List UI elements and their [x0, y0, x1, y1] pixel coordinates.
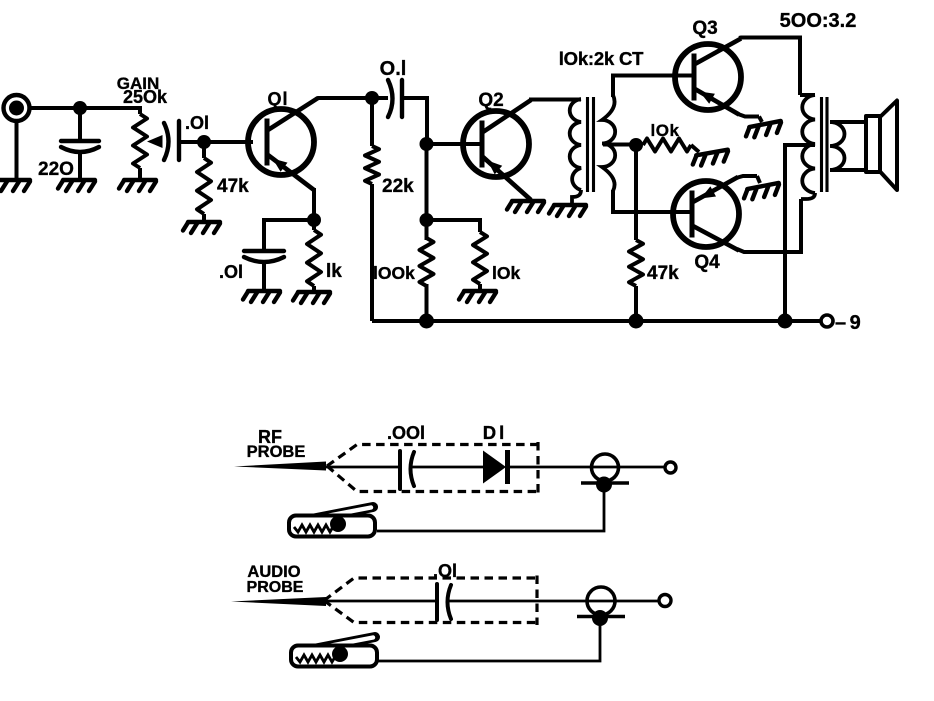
wire RF ground return	[377, 488, 604, 531]
alligator clip (audio)	[291, 637, 377, 667]
svg-text:5OO:3.2: 5OO:3.2	[780, 10, 857, 32]
svg-text:PROBE: PROBE	[247, 579, 304, 596]
svg-text:47k: 47k	[217, 176, 249, 197]
svg-text:lOOk: lOOk	[373, 263, 415, 283]
speaker LS1	[866, 101, 897, 191]
wire RF probe line	[326, 466, 398, 469]
svg-text:lOk: lOk	[492, 263, 520, 283]
resistor 100k	[420, 238, 434, 286]
terminal (RF)	[665, 462, 676, 473]
node input junction	[73, 101, 87, 115]
svg-text:22O: 22O	[38, 159, 74, 180]
resistor 22k	[365, 98, 379, 321]
audio probe body (dashed)	[324, 576, 537, 626]
transistor Q4	[673, 177, 739, 251]
capacitor .01 (audio)	[437, 584, 451, 620]
wire cap to plug (audio)	[447, 600, 659, 603]
svg-text:.Ol: .Ol	[219, 262, 243, 282]
wire T1 secondary bottom to Q4 base	[613, 190, 692, 212]
svg-text:Q3: Q3	[692, 18, 717, 39]
wire Q4 emitter	[736, 176, 760, 183]
transformer T1 core	[588, 97, 594, 192]
resistor 10k (center tap)	[643, 139, 699, 153]
ground (220 cap)	[58, 180, 95, 191]
svg-text:47k: 47k	[647, 263, 679, 284]
transistor Q3	[675, 39, 741, 115]
wire T1 secondary top to Q3 base	[613, 76, 694, 98]
potentiometer GAIN 250k	[133, 106, 163, 179]
capacitor 220	[61, 108, 99, 179]
wire audio ground return	[377, 621, 600, 661]
svg-text:PROBE: PROBE	[247, 443, 306, 461]
transformer T2 secondary	[830, 122, 866, 170]
svg-text:Dl: Dl	[483, 422, 508, 443]
node 100k junction	[420, 213, 434, 227]
wire Q1 collector	[316, 98, 366, 99]
svg-text:.Ol: .Ol	[433, 561, 457, 581]
ground (1k)	[293, 292, 330, 303]
ground (input jack)	[0, 180, 30, 191]
resistor 1k	[307, 220, 321, 291]
svg-text:.Ol: .Ol	[185, 113, 209, 133]
capacitor 0.1	[377, 80, 427, 140]
ground (potentiometer)	[119, 180, 156, 191]
transformer T2 primary	[800, 95, 815, 199]
svg-text:lOk:2k CT: lOk:2k CT	[559, 48, 644, 69]
ground (Q3 emitter)	[744, 121, 782, 139]
wire Q4 collector	[737, 199, 801, 252]
transistor Q1	[248, 98, 318, 190]
audio probe tip needle	[231, 597, 326, 606]
diode D1	[483, 450, 508, 484]
ground (T1 primary)	[549, 205, 586, 216]
svg-text:25Ok: 25Ok	[123, 87, 168, 107]
phone tip plug (audio)	[577, 587, 625, 626]
node Q2 base junction	[420, 137, 434, 151]
wire plug to terminal (audio)	[615, 600, 617, 603]
input jack J1	[4, 95, 30, 179]
wire cap to diode	[410, 466, 483, 469]
node center tap junction	[629, 138, 643, 152]
RF probe body (dashed)	[327, 442, 538, 494]
ground (10k center tap)	[691, 150, 729, 167]
transformer T2 core	[822, 97, 828, 192]
svg-text:lk: lk	[326, 261, 342, 282]
ground (.01 bypass)	[243, 291, 280, 302]
wire plug to terminal (RF)	[618, 466, 620, 469]
capacitor .001	[400, 451, 414, 489]
svg-text:Q2: Q2	[478, 90, 503, 111]
node 0.1 cap junction	[365, 91, 379, 105]
node Q1 base junction	[197, 135, 211, 149]
svg-text:O.l: O.l	[380, 58, 407, 80]
ground (Q2 emitter)	[507, 201, 544, 212]
terminal -9 supply	[821, 315, 833, 327]
resistor 10k (Q2 base)	[427, 220, 488, 290]
node bus junction 3	[778, 314, 793, 329]
wire divider	[425, 140, 429, 321]
wire Q1 emitter	[312, 188, 316, 220]
transformer T1 secondary	[602, 95, 615, 191]
wire input row	[28, 106, 140, 110]
transistor Q2	[463, 100, 531, 200]
wire Q2 base	[427, 142, 483, 146]
svg-text:Q4: Q4	[694, 252, 720, 273]
svg-text:Ql: Ql	[267, 89, 288, 109]
svg-text:–9: –9	[835, 312, 864, 334]
wire Q3 collector	[739, 38, 800, 96]
resistor 47k (Q1 base)	[197, 142, 211, 221]
ground (47k)	[183, 222, 220, 233]
resistor 47k (bias)	[629, 145, 643, 321]
svg-text:lOk: lOk	[651, 121, 680, 140]
wire negative supply bus	[372, 319, 820, 323]
wire diode to plug	[508, 466, 664, 469]
terminal (audio)	[659, 595, 671, 607]
node bus junction 2	[629, 314, 644, 329]
alligator clip (RF)	[289, 507, 375, 537]
wire T2 center tap	[785, 145, 815, 321]
node bus junction 1	[419, 314, 434, 329]
wire Q2 collector	[529, 98, 581, 102]
transformer T1 primary	[570, 99, 581, 203]
svg-text:.OOl: .OOl	[387, 423, 425, 443]
ground (Q4 emitter)	[742, 183, 780, 201]
ground (10k)	[459, 291, 496, 302]
node Q1 emitter junction	[307, 213, 321, 227]
RF probe tip needle	[234, 462, 326, 471]
phone tip plug (RF)	[581, 454, 629, 493]
capacitor .01 input coupling	[164, 121, 253, 160]
svg-text:22k: 22k	[382, 176, 414, 197]
wire center tap	[603, 143, 630, 147]
capacitor .01 emitter bypass	[244, 220, 314, 290]
wire audio probe line	[326, 600, 437, 603]
wire Q3 emitter	[738, 114, 762, 122]
